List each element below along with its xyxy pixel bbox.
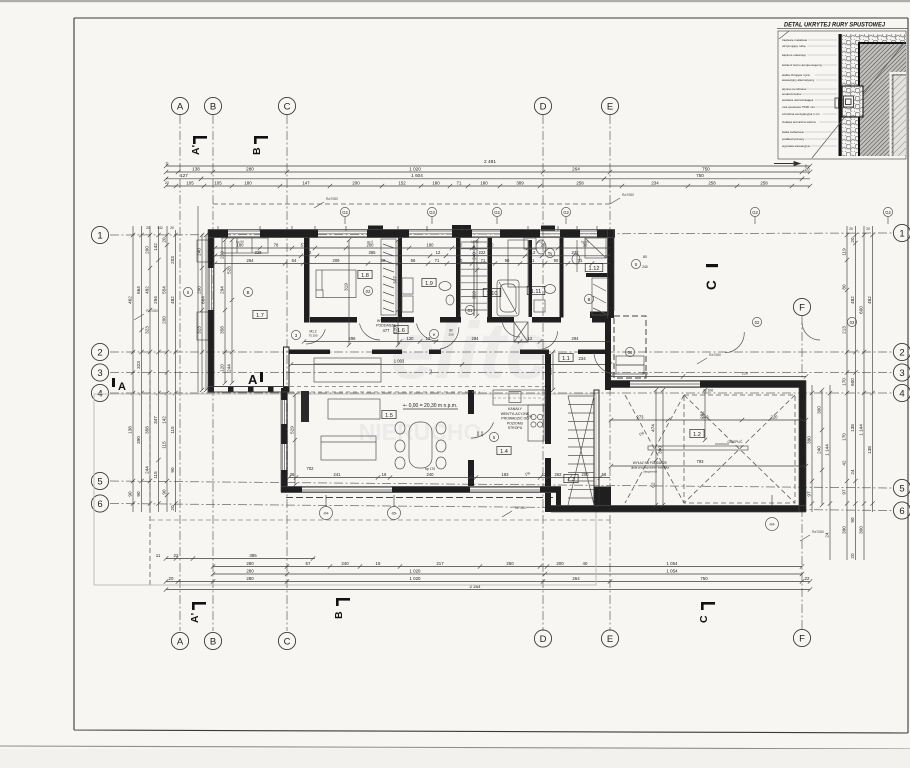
svg-text:600: 600 <box>850 378 855 386</box>
svg-text:E: E <box>607 634 613 645</box>
svg-text:KANAŁY: KANAŁY <box>508 407 522 411</box>
svg-text:pvd: pvd <box>537 240 542 244</box>
svg-text:200: 200 <box>582 472 590 477</box>
interior dimension rows upper band <box>215 247 610 249</box>
svg-text:258: 258 <box>576 180 584 185</box>
west eaves line <box>197 206 199 392</box>
sofa living room <box>314 358 381 382</box>
svg-text:180: 180 <box>480 180 488 185</box>
svg-text:1 020: 1 020 <box>410 576 422 581</box>
svg-text:B: B <box>247 290 250 295</box>
svg-text:E: E <box>607 101 613 112</box>
axis circles left and right 1-6 <box>91 226 108 243</box>
svg-text:142: 142 <box>153 243 158 251</box>
living room long dim line <box>291 364 610 366</box>
svg-text:200: 200 <box>556 561 564 566</box>
svg-text:1 020: 1 020 <box>410 568 422 573</box>
svg-text:Ra7080: Ra7080 <box>812 530 824 534</box>
insulation strip <box>842 34 859 156</box>
living south wall <box>281 487 302 493</box>
hall west wall <box>545 354 551 444</box>
svg-text:G2: G2 <box>342 210 348 215</box>
svg-text:wodoszczelna: wodoszczelna <box>782 92 801 96</box>
svg-text:1.12: 1.12 <box>589 266 600 272</box>
svg-text:234: 234 <box>651 180 659 185</box>
svg-text:262: 262 <box>555 472 563 477</box>
svg-text:90: 90 <box>505 258 510 263</box>
right vertical dimension chain <box>846 226 848 560</box>
svg-text:80: 80 <box>842 284 847 290</box>
svg-text:105: 105 <box>186 180 194 185</box>
svg-text:obojonech: obojonech <box>643 470 657 474</box>
svg-text:D: D <box>540 634 547 645</box>
svg-text:294: 294 <box>472 336 480 341</box>
partition 1.9/stairs <box>456 238 461 318</box>
svg-text:600: 600 <box>859 306 864 314</box>
bottom section markers A' B C <box>192 602 206 605</box>
svg-text:42: 42 <box>842 460 847 466</box>
svg-text:12: 12 <box>528 336 533 341</box>
svg-text:90: 90 <box>170 467 175 473</box>
svg-text:Pa7080: Pa7080 <box>146 309 158 313</box>
svg-text:294: 294 <box>220 286 225 294</box>
garage dimension row <box>611 419 806 421</box>
svg-text:105: 105 <box>214 180 222 185</box>
svg-text:20: 20 <box>850 237 855 243</box>
svg-text:138: 138 <box>850 424 855 432</box>
staircase treads <box>461 241 487 243</box>
terrace drain channel <box>648 446 748 450</box>
svg-text:482: 482 <box>867 296 872 304</box>
svg-text:528: 528 <box>227 266 232 274</box>
svg-text:180: 180 <box>244 180 252 185</box>
svg-text:20: 20 <box>866 227 870 231</box>
svg-text:1: 1 <box>97 230 102 241</box>
svg-text:hp 90: hp 90 <box>471 240 479 244</box>
svg-text:300: 300 <box>817 406 822 414</box>
svg-text:C: C <box>704 280 719 290</box>
svg-text:200: 200 <box>448 333 453 337</box>
svg-text:280: 280 <box>246 561 254 566</box>
svg-text:222: 222 <box>479 250 487 255</box>
svg-text:240: 240 <box>642 372 648 376</box>
svg-text:1.3: 1.3 <box>567 477 575 483</box>
svg-text:elewacyjny alternatywny: elewacyjny alternatywny <box>782 78 815 82</box>
svg-text:358: 358 <box>145 426 150 434</box>
main east wall <box>608 230 615 319</box>
corridor south wall <box>289 350 330 355</box>
svg-text:323: 323 <box>145 326 150 334</box>
svg-text:24: 24 <box>850 469 855 475</box>
svg-text:16: 16 <box>382 472 387 477</box>
svg-text:323: 323 <box>136 361 141 369</box>
svg-text:rura spustowa 75/90 mm: rura spustowa 75/90 mm <box>782 105 816 109</box>
svg-text:664: 664 <box>136 286 141 294</box>
svg-text:97: 97 <box>842 489 847 495</box>
kitchen-hall partition <box>468 390 474 414</box>
wc 1.9 <box>446 295 454 305</box>
svg-text:294: 294 <box>572 336 580 341</box>
svg-text:24: 24 <box>825 532 830 538</box>
svg-text:20: 20 <box>169 576 174 581</box>
svg-text:-04-: -04- <box>769 523 776 527</box>
svg-text:WENTYLACYJNE: WENTYLACYJNE <box>501 412 530 416</box>
svg-text:240: 240 <box>341 561 349 566</box>
svg-text:200: 200 <box>197 286 202 294</box>
svg-text:2: 2 <box>899 347 904 358</box>
washer 1.11 <box>534 300 545 312</box>
living room dimension row <box>289 477 610 479</box>
closet 1.10 <box>508 240 528 287</box>
svg-text:2 481: 2 481 <box>484 159 496 165</box>
svg-text:180: 180 <box>427 242 435 247</box>
svg-text:307: 307 <box>393 276 398 284</box>
svg-text:482: 482 <box>850 296 855 304</box>
svg-text:120: 120 <box>220 364 225 372</box>
svg-text:138: 138 <box>128 426 133 434</box>
svg-text:71: 71 <box>435 258 440 263</box>
svg-text:71: 71 <box>457 180 462 185</box>
svg-text:264: 264 <box>572 166 580 171</box>
closet hatched corridor <box>514 322 528 342</box>
svg-text:G2: G2 <box>494 210 500 215</box>
svg-text:280: 280 <box>246 576 254 581</box>
fireplace <box>301 391 309 422</box>
svg-text:NIERUCHO: NIERUCHO <box>359 419 482 445</box>
axis circles bottom A-F <box>171 632 188 649</box>
svg-text:200: 200 <box>480 431 484 436</box>
svg-text:WYŁAZ NA PODDASZE: WYŁAZ NA PODDASZE <box>633 461 668 465</box>
svg-text:750: 750 <box>700 576 708 581</box>
stairs east wall <box>488 238 493 318</box>
window/door marker circles <box>340 207 349 216</box>
svg-text:1.11: 1.11 <box>531 289 541 295</box>
svg-text:B: B <box>251 147 263 155</box>
svg-text:40: 40 <box>583 561 588 566</box>
terrace dashed X braces <box>684 395 795 503</box>
svg-text:328: 328 <box>255 250 263 255</box>
axis circles top A-E <box>171 97 188 114</box>
svg-text:20: 20 <box>146 226 150 230</box>
svg-text:258: 258 <box>708 180 716 185</box>
svg-text:240: 240 <box>197 248 202 256</box>
interior vertical dims <box>348 240 350 345</box>
svg-text:209: 209 <box>333 258 341 263</box>
room 1.7 vertical dims <box>224 240 226 383</box>
svg-text:90: 90 <box>458 258 463 263</box>
svg-text:292: 292 <box>700 411 705 419</box>
svg-text:80: 80 <box>643 255 647 259</box>
living-hall step wall <box>556 487 561 513</box>
svg-text:12: 12 <box>307 250 312 255</box>
svg-text:115: 115 <box>153 471 158 479</box>
svg-text:203: 203 <box>170 256 175 264</box>
slab edge dashed <box>286 497 560 499</box>
svg-text:kapinos odsunięty: kapinos odsunięty <box>782 53 807 57</box>
svg-text:-04-: -04- <box>323 512 330 516</box>
svg-text:241: 241 <box>334 472 342 477</box>
svg-text:20: 20 <box>162 237 167 243</box>
diagonal cut line <box>812 42 905 158</box>
svg-text:szczelina wentylacyjna 1 cm: szczelina wentylacyjna 1 cm <box>782 112 820 116</box>
svg-text:A': A' <box>190 145 202 155</box>
west pilasters <box>197 240 208 262</box>
west outside dims <box>201 235 203 390</box>
svg-text:20: 20 <box>170 505 175 511</box>
svg-text:G2: G2 <box>563 210 569 215</box>
section marker C right <box>706 264 718 267</box>
svg-text:78: 78 <box>274 242 279 247</box>
cabinets room 1.9 <box>402 278 413 294</box>
svg-text:138: 138 <box>192 166 200 171</box>
svg-text:zawiesie metalowe: zawiesie metalowe <box>782 38 808 42</box>
svg-text:750: 750 <box>702 166 710 171</box>
svg-text:2: 2 <box>97 347 102 358</box>
svg-text:347: 347 <box>153 416 158 424</box>
svg-text:75 200: 75 200 <box>308 334 318 338</box>
top exterior wall <box>208 230 228 238</box>
svg-text:390: 390 <box>842 526 847 534</box>
svg-text:OCIEPLIĆ: OCIEPLIĆ <box>728 439 744 444</box>
svg-text:A': A' <box>189 613 201 623</box>
svg-text:belka żelbetowa: belka żelbetowa <box>782 130 804 134</box>
svg-text:F: F <box>799 633 805 644</box>
bottom dimension chain <box>166 558 315 560</box>
svg-text:12: 12 <box>542 472 547 477</box>
svg-text:250: 250 <box>506 561 514 566</box>
entry recess walls <box>590 312 614 319</box>
bed room 1.8 <box>316 270 356 298</box>
axis circle F mid-right <box>793 298 810 315</box>
svg-text:200: 200 <box>220 251 225 259</box>
svg-text:390: 390 <box>807 436 812 444</box>
svg-text:1.1: 1.1 <box>562 356 570 362</box>
svg-text:1.6: 1.6 <box>397 328 405 334</box>
svg-text:232: 232 <box>572 250 580 255</box>
svg-text:STROPU: STROPU <box>508 426 523 430</box>
svg-text:183: 183 <box>502 472 510 477</box>
svg-text:PROWADZIĆ OD: PROWADZIĆ OD <box>501 416 529 421</box>
svg-text:170: 170 <box>842 378 847 386</box>
roof eaves dashed outline <box>213 203 612 205</box>
svg-text:A: A <box>248 372 258 387</box>
svg-text:169: 169 <box>548 367 553 375</box>
svg-text:B: B <box>333 611 345 619</box>
svg-text:G3: G3 <box>429 210 435 215</box>
svg-text:90: 90 <box>850 517 855 523</box>
svg-text:147: 147 <box>302 180 310 185</box>
svg-text:200: 200 <box>162 316 167 324</box>
hall stairs (1.3) treads <box>568 395 594 397</box>
svg-text:712: 712 <box>429 369 433 375</box>
svg-text:389: 389 <box>516 180 524 185</box>
svg-text:1.4: 1.4 <box>500 449 508 455</box>
svg-text:365: 365 <box>369 250 377 255</box>
svg-text:127: 127 <box>180 173 188 178</box>
bottom reference circles <box>320 507 333 520</box>
svg-text:390: 390 <box>136 436 141 444</box>
svg-text:200: 200 <box>145 246 150 254</box>
svg-text:hp 170: hp 170 <box>425 467 435 471</box>
svg-text:1 054: 1 054 <box>667 568 679 573</box>
entry steps <box>616 356 644 365</box>
svg-text:264: 264 <box>572 576 580 581</box>
detail inset box <box>778 31 906 159</box>
svg-text:115: 115 <box>170 426 175 434</box>
svg-text:244: 244 <box>145 466 150 474</box>
chimney boxes above top wall <box>368 226 383 231</box>
svg-text:1 604: 1 604 <box>411 173 423 178</box>
svg-text:240: 240 <box>427 472 435 477</box>
svg-text:217: 217 <box>436 561 444 566</box>
bathroom partition walls <box>529 240 533 317</box>
svg-text:180: 180 <box>432 180 440 185</box>
svg-text:A: A <box>177 101 184 112</box>
partition 1.7/1.8 <box>304 238 310 323</box>
svg-text:664: 664 <box>201 296 206 304</box>
svg-text:240: 240 <box>642 265 648 269</box>
horizontal axis dashed lines <box>110 233 893 235</box>
left vertical dimension chain <box>132 226 134 512</box>
svg-text:120: 120 <box>407 336 415 341</box>
terrace pale outline bottom-left <box>94 394 596 585</box>
svg-text:36: 36 <box>290 472 295 477</box>
terrace south wall <box>551 506 806 513</box>
svg-text:234: 234 <box>578 356 586 361</box>
svg-text:A: A <box>177 636 184 647</box>
svg-text:71: 71 <box>578 258 583 263</box>
svg-text:170: 170 <box>842 433 847 441</box>
svg-text:358: 358 <box>220 326 225 334</box>
wall black line <box>839 34 842 156</box>
svg-text:3: 3 <box>97 368 102 379</box>
lighter step <box>893 75 906 156</box>
svg-text:22: 22 <box>165 181 169 185</box>
svg-text:390: 390 <box>658 446 663 454</box>
svg-text:6: 6 <box>899 506 904 517</box>
svg-text:64: 64 <box>292 258 297 263</box>
partition 1.8/1.9 <box>398 238 402 318</box>
svg-text:3: 3 <box>899 368 904 379</box>
svg-text:5: 5 <box>899 483 904 494</box>
svg-text:C: C <box>284 101 291 112</box>
svg-text:90: 90 <box>136 491 141 497</box>
svg-text:793: 793 <box>697 459 705 464</box>
svg-text:220: 220 <box>771 414 779 419</box>
svg-text:152: 152 <box>398 180 406 185</box>
svg-text:57: 57 <box>306 561 311 566</box>
svg-text:kołnierz termo-kompensujemy: kołnierz termo-kompensujemy <box>782 63 823 67</box>
svg-text:02: 02 <box>366 289 371 294</box>
svg-text:319: 319 <box>472 291 477 299</box>
svg-text:D: D <box>540 101 547 112</box>
terrace side dims right <box>811 385 813 512</box>
svg-text:119: 119 <box>842 248 847 256</box>
corridor dimension row <box>304 341 610 343</box>
svg-text:22: 22 <box>174 553 179 558</box>
svg-text:462: 462 <box>128 296 133 304</box>
svg-text:142: 142 <box>162 416 167 424</box>
svg-text:11: 11 <box>165 162 169 166</box>
terrace east wall <box>799 387 806 512</box>
svg-text:220: 220 <box>742 372 748 376</box>
svg-text:-05-: -05- <box>391 512 398 516</box>
svg-text:utrzymujący rurkę: utrzymujący rurkę <box>782 44 806 48</box>
svg-text:300: 300 <box>859 526 864 534</box>
wardrobe room 1.7 <box>222 238 268 253</box>
svg-text:138: 138 <box>867 446 872 454</box>
svg-text:izolacja termiczna wtórna: izolacja termiczna wtórna <box>782 120 816 124</box>
svg-text:np 0: np 0 <box>367 240 373 244</box>
shower room 1.12 <box>585 238 606 258</box>
svg-text:323: 323 <box>197 326 202 334</box>
top section markers A' B <box>193 136 207 139</box>
svg-text:385: 385 <box>249 553 257 558</box>
bathroom 1.11 fixtures <box>536 240 546 254</box>
svg-text:319: 319 <box>344 283 349 291</box>
svg-text:podkład tynkowy: podkład tynkowy <box>782 137 805 141</box>
svg-text:12: 12 <box>531 250 536 255</box>
svg-text:474: 474 <box>651 424 656 432</box>
svg-text:477: 477 <box>383 328 391 333</box>
svg-text:siatka zbrojąca i tynk: siatka zbrojąca i tynk <box>782 73 810 77</box>
svg-text:5: 5 <box>97 476 102 487</box>
svg-text:płynna membrana: płynna membrana <box>782 87 806 91</box>
dim above garage wall <box>611 376 806 378</box>
svg-text:240: 240 <box>472 252 477 260</box>
svg-text:702: 702 <box>307 466 315 471</box>
svg-text:142: 142 <box>157 226 163 230</box>
svg-text:06: 06 <box>628 350 633 355</box>
wardrobe strip room 1.8 <box>381 239 396 315</box>
svg-text:1: 1 <box>899 228 904 239</box>
svg-text:G2: G2 <box>752 210 758 215</box>
svg-text:4: 4 <box>899 388 904 399</box>
svg-text:62: 62 <box>651 482 656 488</box>
svg-text:1.5: 1.5 <box>385 413 393 419</box>
svg-text:213: 213 <box>842 326 847 334</box>
svg-text:1.2: 1.2 <box>693 432 701 438</box>
svg-text:554: 554 <box>162 286 167 294</box>
svg-text:1 003: 1 003 <box>394 359 405 364</box>
svg-text:POZIOMU: POZIOMU <box>507 421 524 425</box>
wall below 1.7 east <box>284 347 290 392</box>
garage-terrace north wall <box>611 381 630 388</box>
room number labels <box>253 310 267 318</box>
svg-text:20: 20 <box>850 553 855 559</box>
svg-text:12: 12 <box>436 250 441 255</box>
door swing arcs <box>306 329 325 344</box>
svg-text:B: B <box>210 101 216 112</box>
washbasin 1.9 <box>439 282 451 291</box>
svg-text:03: 03 <box>850 320 855 325</box>
svg-text:57: 57 <box>301 242 306 247</box>
svg-text:294: 294 <box>153 296 158 304</box>
svg-text:264: 264 <box>247 258 255 263</box>
svg-text:1 020: 1 020 <box>409 166 421 171</box>
svg-text:90: 90 <box>381 258 386 263</box>
insulation top band <box>842 34 906 43</box>
svg-text:280: 280 <box>246 568 254 573</box>
wardrobe hatched right <box>592 278 608 315</box>
svg-text:529: 529 <box>290 426 295 434</box>
wall face contour lines <box>208 230 806 513</box>
left exterior wall <box>208 230 214 269</box>
svg-text:273: 273 <box>637 414 645 419</box>
svg-text:90: 90 <box>162 489 167 495</box>
svg-text:20: 20 <box>458 242 463 247</box>
living west wall <box>281 388 287 400</box>
